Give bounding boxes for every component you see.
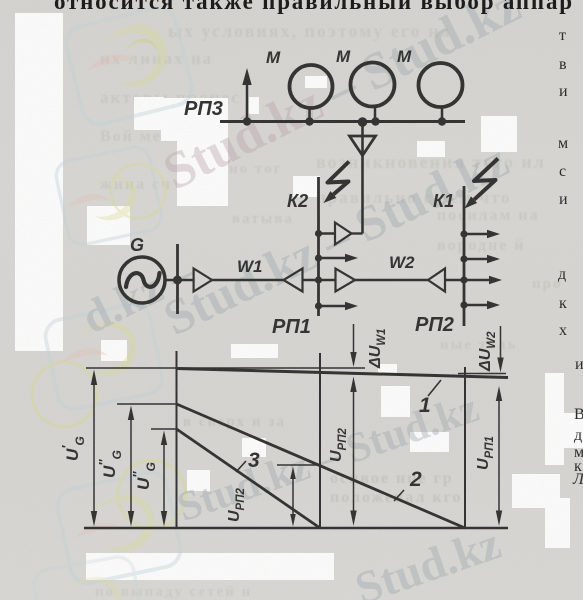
- watermark text stripes: [154, 0, 530, 203]
- cable-run symbol from РП3 down: [350, 117, 376, 233]
- tick level U_G''': [151, 428, 177, 430]
- node РП1 main: [315, 276, 322, 283]
- dimension U_РП1: [475, 386, 502, 526]
- node at generator bus: [173, 276, 182, 285]
- node on РП1 bus (tie): [315, 230, 322, 237]
- ghost (bleed-through) text lines: [168, 21, 451, 42]
- bus РП2: [463, 186, 466, 326]
- curve label 3: [236, 449, 260, 472]
- dimension U_G''': [130, 431, 167, 527]
- line start arrow symbol: [194, 269, 212, 292]
- wire from cable symbol down to РП1 branch: [352, 232, 363, 234]
- load arrow РП2 3 (main level): [460, 276, 502, 285]
- W1 end arrow symbol at РП1: [284, 269, 303, 292]
- dimension at РП1 on curve 2: [290, 467, 296, 527]
- W2 start arrow symbol: [336, 269, 356, 292]
- curve label 2: [394, 468, 422, 501]
- dimension U_РП2: [328, 377, 357, 527]
- wire W1: [212, 279, 284, 281]
- tick at curve2 РП1 value: [277, 464, 320, 466]
- wire G to bus: [165, 279, 194, 281]
- graph vertical at РП2: [464, 367, 466, 528]
- generator G: [119, 235, 165, 303]
- load arrow РП2 4: [460, 301, 500, 310]
- dimension dU_W2: [477, 326, 504, 373]
- feeder arrow up at РП3: [242, 68, 251, 126]
- white patches: [15, 13, 63, 351]
- bus РП1: [317, 177, 320, 316]
- dimension dU_W1: [350, 324, 388, 369]
- curve 1 (normal regime): [177, 369, 509, 378]
- wire tie to РП1 bus: [319, 232, 336, 234]
- load arrow РП2 1: [460, 230, 500, 239]
- dimension U_G': [59, 370, 97, 527]
- curve label 1: [419, 380, 441, 417]
- right column letters: [559, 27, 566, 45]
- wire into РП2 bus: [445, 279, 464, 281]
- arrow symbol on РП1-РП3 tie: [335, 223, 352, 245]
- W2 end arrow symbol at РП2: [428, 269, 445, 292]
- generator bus: [176, 244, 179, 314]
- graph vertical at РП1: [319, 353, 321, 528]
- load arrow РП1 lower: [315, 302, 358, 311]
- motor M2: [336, 47, 395, 126]
- short-circuit К1: [433, 159, 498, 212]
- curve 2 (fault К1): [177, 404, 466, 528]
- motor M1: [266, 48, 333, 126]
- motor M3: [397, 47, 463, 126]
- graph baseline: [84, 527, 508, 530]
- load arrow РП2 2: [460, 255, 500, 264]
- top cut-off book text: [54, 0, 574, 15]
- wire into РП1 bus: [303, 279, 336, 281]
- reference level line U_G: [86, 367, 365, 369]
- dimension U_G'': [96, 406, 134, 527]
- wire W2: [355, 279, 428, 281]
- tick for dU_W2: [458, 373, 506, 375]
- bus РП3: [220, 120, 465, 123]
- graph axis at generator: [176, 351, 178, 528]
- short-circuit К2: [287, 162, 349, 212]
- tick level U_G'': [117, 403, 177, 405]
- curve 3 (fault К2): [177, 429, 321, 528]
- load arrow РП1 upper: [315, 254, 358, 263]
